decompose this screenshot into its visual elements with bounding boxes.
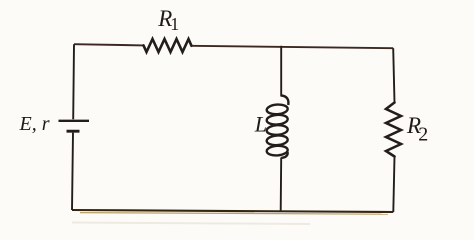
battery E,r long plate <box>59 120 90 122</box>
wire left side bottom lead <box>72 133 73 210</box>
inductor L <box>266 96 288 158</box>
svg-text:2: 2 <box>418 123 428 145</box>
svg-text:L: L <box>254 111 267 136</box>
wire top-right segment <box>192 46 394 48</box>
scan shadow streak <box>72 223 310 225</box>
wire right side top lead <box>393 48 394 102</box>
wire middle branch top lead <box>280 46 282 97</box>
wire middle branch bottom lead <box>280 158 283 212</box>
wire top-left segment <box>74 44 144 45</box>
scan fringe under bottom wire <box>80 213 388 215</box>
resistor R2 <box>386 103 401 157</box>
battery E,r short plate <box>67 130 80 133</box>
wire right side bottom lead <box>393 157 394 213</box>
resistor R1 <box>144 39 192 52</box>
svg-text:1: 1 <box>170 14 179 34</box>
svg-text:E, r: E, r <box>19 113 50 135</box>
wire left side top lead <box>72 44 75 119</box>
wire bottom <box>72 210 393 212</box>
